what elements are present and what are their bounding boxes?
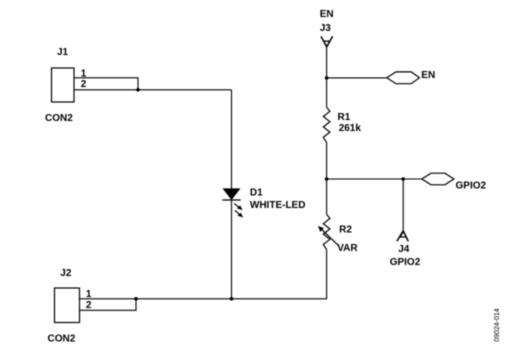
svg-text:EN: EN [421,70,435,81]
junction bottom rail / D1 [230,297,234,301]
svg-text:CON2: CON2 [48,334,76,345]
wire J1 pin2 to node A [74,89,232,91]
connector J2 [55,288,80,323]
svg-text:CON2: CON2 [45,113,73,124]
junction EN node [325,76,329,80]
R2 variable arrow [318,226,339,246]
svg-text:VAR: VAR [337,243,358,254]
wire D1 cathode down [231,200,233,299]
wire R2 top [326,179,328,214]
svg-text:WHITE-LED: WHITE-LED [250,200,306,211]
junction J2 pins [134,297,138,301]
svg-text:D1: D1 [250,188,263,199]
resistor R1 [323,107,330,142]
wire down to J4 [402,179,404,231]
wire J2 pin2 jog [80,299,137,311]
svg-text:J4: J4 [398,244,410,255]
wire J1 pin1 jog [74,78,138,90]
svg-text:09024-014: 09024-014 [494,308,501,342]
svg-text:2: 2 [86,300,92,311]
junction GPIO2 / J4 [401,177,405,181]
connector J1 [52,68,75,102]
svg-text:R1: R1 [338,112,351,123]
wire R2 bottom to rail [326,250,328,299]
svg-text:J3: J3 [320,23,332,34]
LED D1 [222,189,243,218]
svg-text:261k: 261k [339,123,362,134]
EN flag [387,72,420,84]
svg-text:R2: R2 [339,225,352,236]
wire EN node to EN flag [327,77,387,79]
junction GPIO2 node [325,177,329,181]
junction J1 pins [136,88,140,92]
wire J3 down to EN node [326,47,328,107]
resistor R2 [323,214,330,249]
svg-text:J1: J1 [57,47,69,58]
wire GPIO2 row [327,178,422,180]
svg-text:1: 1 [86,289,92,300]
svg-text:EN: EN [320,9,334,20]
GPIO2 flag [422,173,454,185]
svg-text:GPIO2: GPIO2 [390,257,421,268]
wire bottom rail [80,298,328,300]
wire node A down to D1 [231,90,233,189]
wire R1 to GPIO2 node [326,142,328,179]
test point J4 [397,231,408,242]
svg-text:2: 2 [81,79,87,90]
svg-text:GPIO2: GPIO2 [456,181,487,192]
test point J3 [321,36,333,47]
svg-text:J2: J2 [60,268,72,279]
